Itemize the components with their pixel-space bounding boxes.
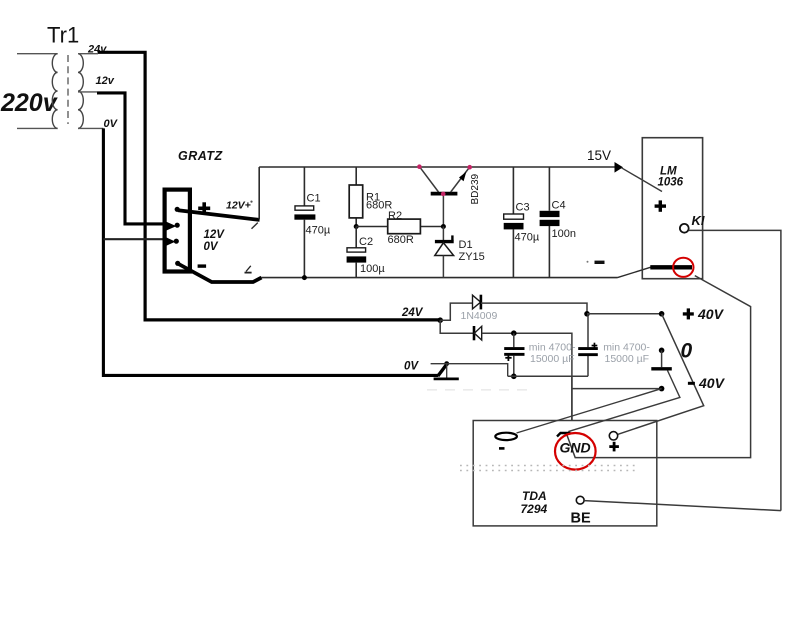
wire +40V to TDA + input xyxy=(618,314,704,435)
svg-text:C1: C1 xyxy=(307,192,321,204)
node 0 terminal stem and bar xyxy=(661,350,663,367)
diode D2 1N4009 upper xyxy=(473,295,481,309)
tiny mark artifact near 12V+ xyxy=(250,201,252,203)
node R1/R2/C2 junction xyxy=(354,224,359,229)
wire upper diode to +40V rail xyxy=(481,303,587,314)
wire 0V mid rail xyxy=(508,375,588,377)
transistor Q1 BD239 collector line xyxy=(420,167,439,192)
wire KI to right and down xyxy=(689,230,781,510)
svg-text:1N4009: 1N4009 xyxy=(461,310,498,322)
wire 0 to TDA GND xyxy=(568,371,680,432)
svg-text:15V: 15V xyxy=(587,148,611,163)
svg-text:C3: C3 xyxy=(516,201,530,213)
wire 15V arrowhead xyxy=(615,162,624,173)
resistor R1 xyxy=(355,167,357,227)
svg-text:min 4700-: min 4700- xyxy=(529,342,576,354)
zener D1 xyxy=(442,227,444,241)
faint gray smudge artifact xyxy=(427,389,530,391)
wire bottom rail xyxy=(261,277,618,279)
svg-text:100n: 100n xyxy=(552,228,576,240)
wire 0V branch to bridge xyxy=(103,238,164,240)
svg-text:15000 µF: 15000 µF xyxy=(530,353,575,365)
wire 24v tap stub xyxy=(78,53,98,55)
rectifier 0V input arrowhead xyxy=(164,236,176,247)
wire 0V thick run down xyxy=(103,128,438,375)
TDA + label xyxy=(609,445,619,448)
wire top 15V rail xyxy=(259,166,617,168)
svg-text:TDA: TDA xyxy=(522,489,547,503)
TDA - terminal ellipse xyxy=(495,433,517,440)
capacitor C2 xyxy=(355,227,357,278)
red circle marker on LM output xyxy=(673,258,693,277)
rectifier + terminal dot xyxy=(175,207,180,212)
svg-text:7294: 7294 xyxy=(521,502,548,516)
node +40V label xyxy=(683,312,694,315)
wire 0V thin to mid rail xyxy=(431,364,508,377)
transformer Tr1 core xyxy=(67,55,69,124)
rectifier minus sign xyxy=(198,264,207,267)
rectifier 12v input arrowhead xyxy=(164,221,177,232)
rectifier AC2 terminal dot xyxy=(174,239,179,244)
wire +40V top rail xyxy=(587,313,662,315)
svg-text:ZY15: ZY15 xyxy=(459,251,485,263)
svg-text:680R: 680R xyxy=(388,234,414,246)
TDA + terminal circle xyxy=(609,432,617,440)
transistor Q1 emitter line xyxy=(451,168,470,193)
wire 24v thick run to 24V rail xyxy=(98,52,439,320)
rectifier bridge body xyxy=(165,190,190,272)
transformer Tr1 primary winding xyxy=(52,54,57,129)
node -40V terminal dot xyxy=(659,386,665,392)
dotted band in TDA box xyxy=(460,465,637,467)
wire -40V to TDA - input xyxy=(517,389,662,433)
selection handle pink 1 xyxy=(417,164,422,169)
TDA GND caret mark xyxy=(557,433,571,437)
wire 24V to upper diode xyxy=(440,303,472,320)
selection handle pink 2 xyxy=(467,165,472,170)
svg-text:D1: D1 xyxy=(459,239,473,251)
capacitor C3 xyxy=(512,167,514,278)
node 0 terminal dot xyxy=(659,348,665,354)
svg-text:15000 µF: 15000 µF xyxy=(605,353,650,365)
transformer Tr1 primary top wire xyxy=(17,53,58,55)
LM1036 plus sign xyxy=(655,204,666,207)
rectifier plus sign xyxy=(198,207,210,211)
switch slash on 0V wire xyxy=(438,363,448,376)
wire 15V diagonal into LM xyxy=(622,168,663,192)
TDA - label xyxy=(499,447,505,450)
diode D3 1N4009 lower (reversed) xyxy=(473,326,476,340)
wire -40V branch to terminal xyxy=(572,388,662,390)
svg-text:1036: 1036 xyxy=(658,176,684,188)
svg-text:BD239: BD239 xyxy=(470,173,481,204)
transistor Q1 emitter arrowhead xyxy=(459,172,466,182)
svg-text:40V: 40V xyxy=(698,375,726,391)
transformer Tr1 secondary winding xyxy=(78,54,83,129)
svg-text:C2: C2 xyxy=(359,236,373,248)
wire 0V mid rail drop to TDA top xyxy=(571,376,573,420)
svg-text:Tr1: Tr1 xyxy=(47,23,79,48)
svg-text:GRATZ: GRATZ xyxy=(178,149,223,163)
LM1036 output bar xyxy=(650,265,692,269)
wire + riser xyxy=(258,167,260,219)
svg-text:470µ: 470µ xyxy=(306,225,331,237)
rectifier - terminal dot xyxy=(175,261,180,266)
node +40V terminal dot xyxy=(659,311,665,317)
svg-text:12V+: 12V+ xyxy=(226,200,251,212)
capacitor C4 xyxy=(548,167,550,278)
svg-text:40V: 40V xyxy=(697,306,725,322)
capacitor C6 (right filter) xyxy=(584,311,590,317)
LM1036 KI terminal circle xyxy=(680,224,689,233)
svg-text:0V: 0V xyxy=(204,241,219,253)
svg-text:min 4700-: min 4700- xyxy=(603,342,650,354)
transistor Q1 base bar xyxy=(431,192,458,196)
svg-text:470µ: 470µ xyxy=(515,232,540,244)
TDA BE terminal circle xyxy=(576,496,584,504)
svg-text:GND: GND xyxy=(560,440,591,456)
dash artifact near LM xyxy=(595,261,605,264)
node R2/base/D1 junction xyxy=(441,224,446,229)
op-amp U2 LM1036 box xyxy=(642,138,702,279)
svg-text:0: 0 xyxy=(681,340,693,363)
wire slash artifact near + output xyxy=(252,223,258,229)
svg-text:0V: 0V xyxy=(404,361,419,373)
wire 12v tap stub xyxy=(78,91,97,93)
svg-text:KI: KI xyxy=(692,213,705,228)
wire LM output to GND of TDA xyxy=(567,276,751,458)
wire 12v thick run to bridge xyxy=(97,93,165,224)
wire 0V tap stub xyxy=(78,127,103,129)
svg-text:12V: 12V xyxy=(204,229,226,241)
node C1 bottom junction xyxy=(302,275,307,280)
red circle marker on GND xyxy=(555,433,596,470)
svg-text:100µ: 100µ xyxy=(360,263,385,275)
wire bridge + output xyxy=(178,210,260,220)
capacitor C5 (left filter) xyxy=(511,330,517,336)
wire bottom rail diagonal to LM bar xyxy=(618,267,651,277)
svg-text:BE: BE xyxy=(571,511,591,527)
rectifier AC1 terminal dot xyxy=(175,223,180,228)
resistor R2 xyxy=(356,226,443,228)
selection handle pink 3 xyxy=(441,192,446,197)
svg-text:12v: 12v xyxy=(96,75,115,87)
node 24V junction dot xyxy=(437,317,443,323)
svg-text:R2: R2 xyxy=(388,210,402,222)
node -40V label xyxy=(688,382,695,385)
wire BE to KI loop xyxy=(584,501,781,511)
capacitor C1 xyxy=(303,167,305,278)
transformer Tr1 primary bottom wire xyxy=(17,127,58,129)
wire 24V to lower diode xyxy=(440,320,474,333)
wire lower diode -40V run xyxy=(482,333,572,420)
small flag artifact near - output xyxy=(246,266,251,272)
wire bridge - output xyxy=(178,264,262,283)
amplifier U3 TDA7294 box xyxy=(473,421,657,526)
svg-text:220v: 220v xyxy=(0,89,59,117)
svg-text:0V: 0V xyxy=(104,118,119,130)
transistor Q1 base stem xyxy=(442,196,444,224)
svg-text:24V: 24V xyxy=(401,307,424,319)
svg-text:C4: C4 xyxy=(552,199,566,211)
